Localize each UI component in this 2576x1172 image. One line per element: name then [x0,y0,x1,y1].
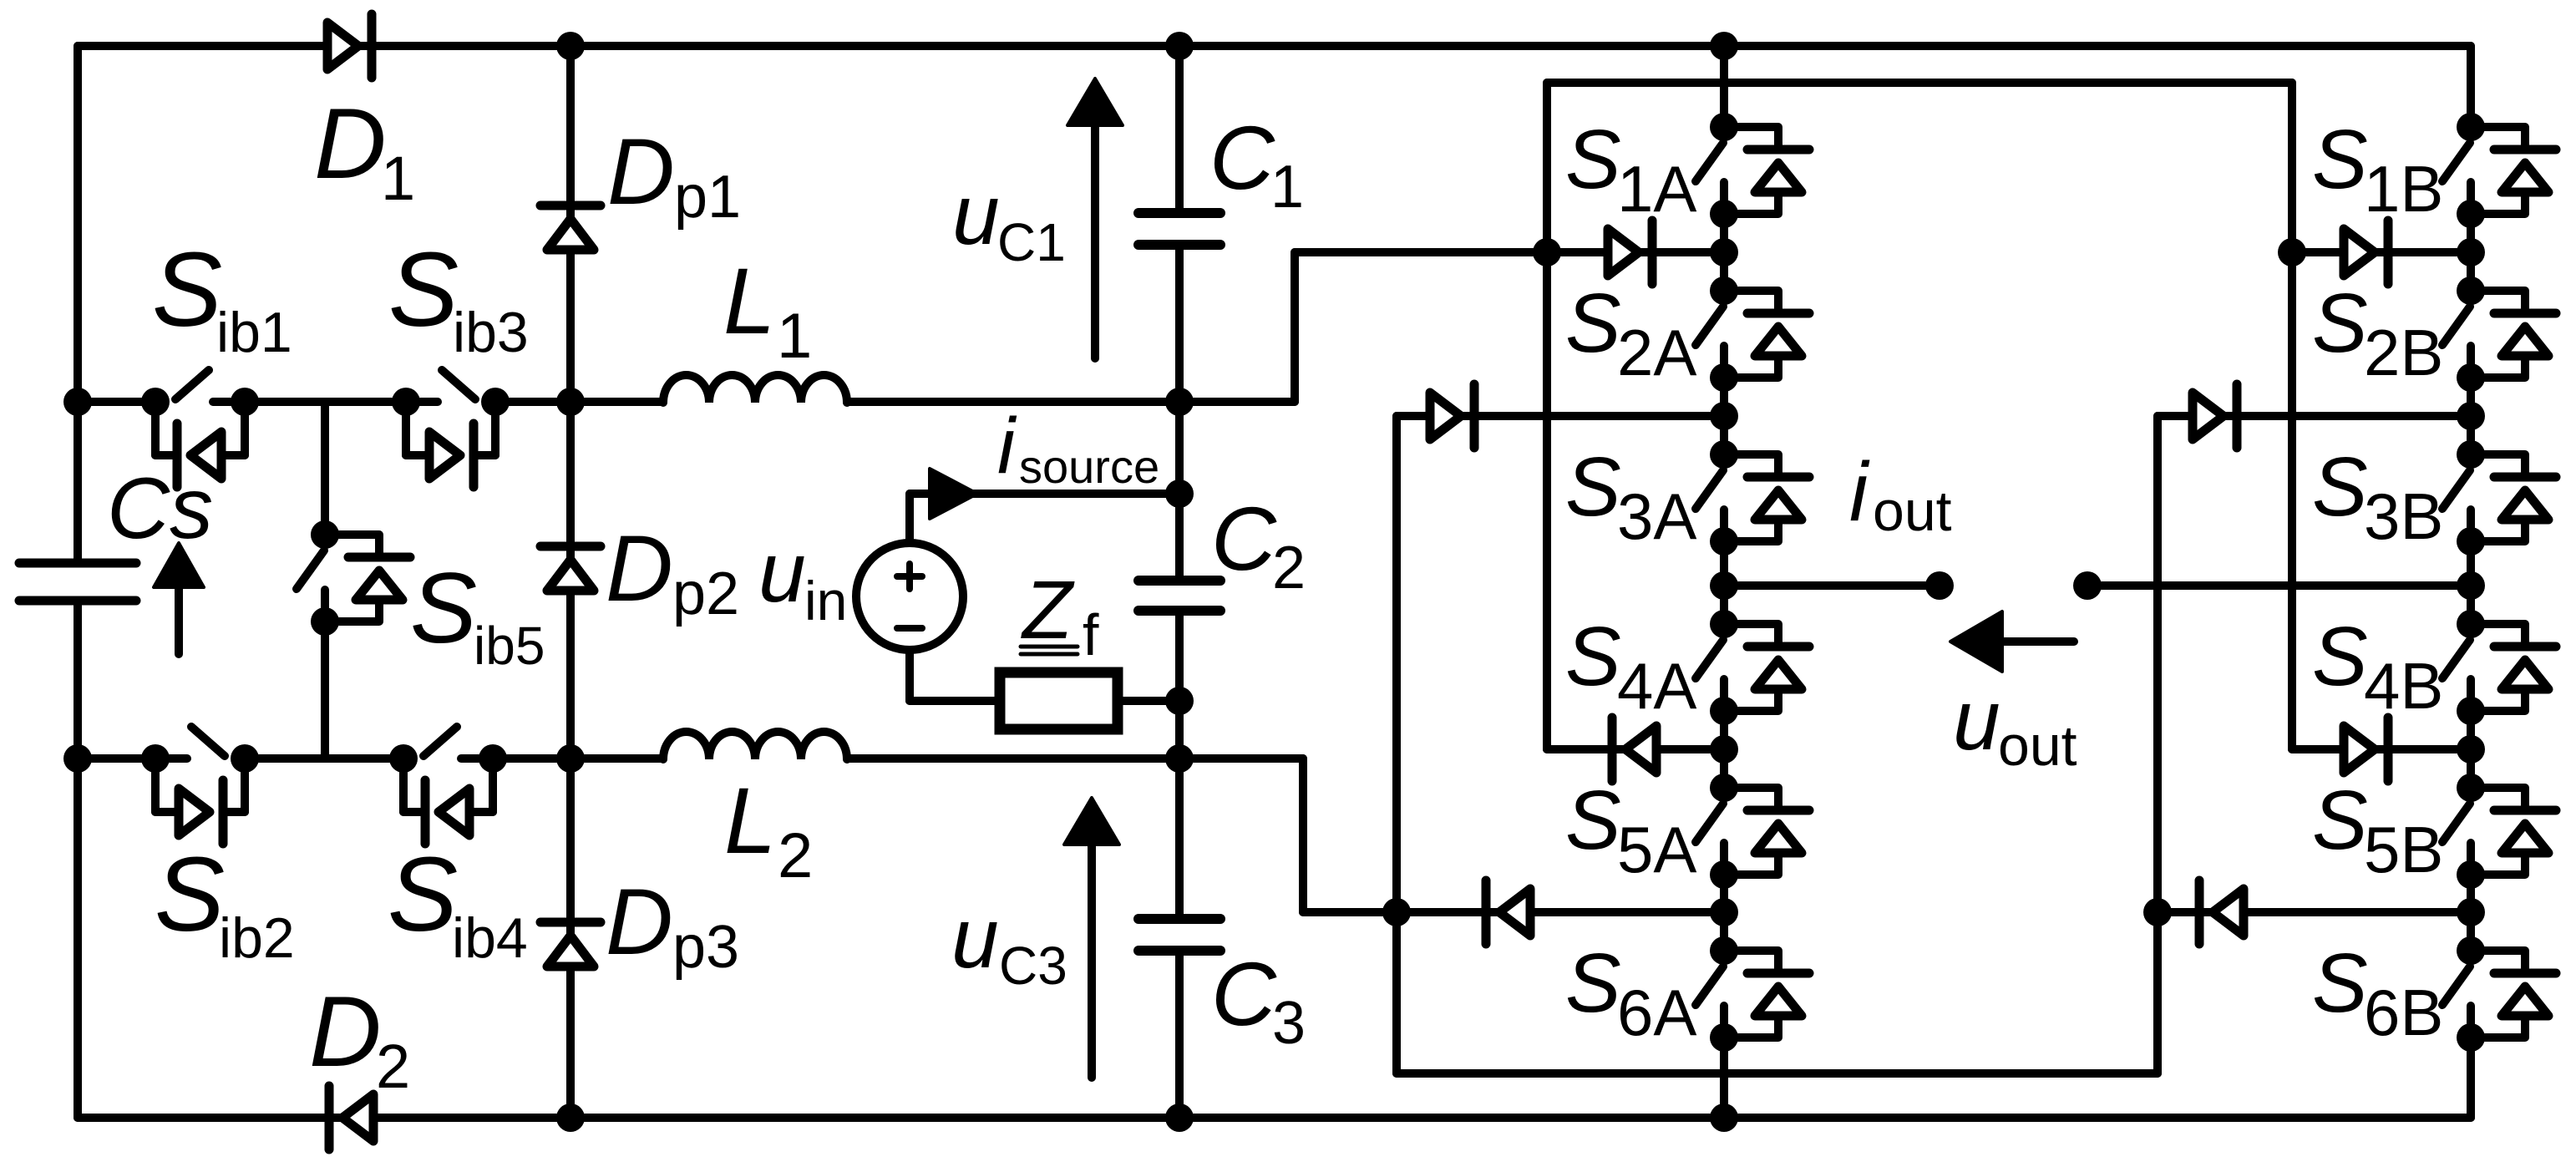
diode Dp2 [540,542,601,551]
svg-text:D: D [309,976,382,1088]
svg-text:C: C [1211,488,1277,589]
capacitor C1 [1138,208,1220,218]
wire C column seg1 [1175,46,1184,213]
diode row4A [1608,718,1617,781]
svg-text:S: S [1565,440,1621,534]
diode row1A [1648,221,1657,284]
diode D1 [368,14,377,78]
capacitor Cs [19,559,136,568]
wire row1 left [78,398,155,406]
inductor L2 [663,732,847,759]
svg-text:ib1: ib1 [216,301,292,364]
junction dot 19 [2073,571,2102,600]
switch S6A [1710,936,1738,965]
wire B-chain seg5 [2467,875,2475,951]
junction dot 17 [1710,1104,1738,1132]
wire Sib5 lower [321,622,329,759]
wire Zf right lead [1118,697,1179,705]
wire rail2 [1547,79,2292,87]
wire B-chain seg3 [2467,541,2475,624]
wire row4 A [1547,745,1724,753]
node B y701 [2457,571,2485,600]
arrow Cs [175,582,183,654]
svg-text:out: out [1873,479,1952,543]
junction dot 18 [1925,571,1954,600]
source uin [856,543,963,650]
svg-text:1: 1 [381,144,415,213]
diode row4B [2384,718,2393,781]
switch S6B [2457,936,2485,965]
junction dot 0 [556,32,585,60]
svg-text:p2: p2 [672,561,739,627]
svg-text:2: 2 [376,1032,410,1101]
svg-text:in: in [804,570,847,632]
node A y1092 [1710,898,1738,926]
svg-text:2A: 2A [1617,316,1696,389]
svg-text:3: 3 [1272,990,1306,1057]
svg-text:S: S [1565,277,1621,370]
svg-text:1A: 1A [1617,152,1696,226]
svg-text:D: D [607,119,675,224]
switch Sib1 [141,388,170,416]
wire row2 A [1397,412,1724,420]
svg-text:i: i [1849,445,1870,539]
wire row2 mid [245,754,403,763]
svg-text:S: S [388,835,458,953]
svg-text:S: S [2312,610,2368,703]
diode row1B [2384,221,2393,284]
capacitor C3 [1138,914,1220,924]
wire A-chain seg0 [1720,46,1728,127]
node B y897 [2457,735,2485,764]
svg-text:4B: 4B [2364,649,2443,723]
svg-text:f: f [1083,602,1099,667]
svg-text:S: S [155,835,225,953]
svg-text:out: out [1998,714,2077,778]
wire A-chain seg6 [1720,1038,1728,1118]
wire iout [1724,581,1940,590]
wire uin top lead [905,494,914,543]
svg-text:6A: 6A [1617,976,1696,1049]
svg-text:1: 1 [1270,154,1304,221]
wire bottom rail [78,1114,2471,1122]
svg-text:1B: 1B [2364,152,2443,226]
svg-text:S: S [152,231,222,348]
svg-text:S: S [1565,610,1621,703]
wire A-chain seg2 [1720,378,1728,454]
wire Sib5 upper [321,402,329,535]
switch S2A [1710,277,1738,305]
svg-text:S: S [1565,774,1621,867]
wire B-chain seg4 [2467,711,2475,788]
svg-text:L: L [724,769,776,873]
node A y897 [1710,735,1738,764]
switch S5B [2457,774,2485,802]
wire A-chain seg1 [1720,214,1728,291]
wire isource [910,490,1179,498]
inductor L1 [663,375,847,403]
svg-text:u: u [1953,672,2000,768]
junction dot 9 [556,744,585,773]
svg-text:p1: p1 [674,164,741,231]
svg-text:L: L [723,249,775,353]
junction dot 5 [1165,388,1194,416]
wire B-chain seg2 [2467,378,2475,454]
svg-text:ib4: ib4 [452,906,528,970]
svg-text:C3: C3 [999,936,1067,996]
svg-text:6B: 6B [2364,976,2443,1049]
capacitor C2 [1138,576,1220,586]
svg-text:ib3: ib3 [453,301,529,364]
node B y498 [2457,402,2485,430]
svg-text:ib5: ib5 [474,616,545,676]
wire C column seg3 [1175,611,1184,919]
svg-text:ib2: ib2 [219,906,295,970]
svg-text:u: u [758,525,806,620]
wire B-chain seg0 [2467,46,2475,127]
wire B-chain seg6 [2467,1038,2475,1118]
label Zf underline [1021,645,1078,649]
svg-text:S: S [388,231,459,348]
switch Sib5 [311,520,339,549]
diode row5A [1482,880,1491,944]
junction dot 15 [556,1104,585,1132]
wire A-rail [1543,83,1551,749]
wire A-chain seg4 [1720,711,1728,788]
junction dot 2 [1710,32,1738,60]
impedance Zf box [1000,672,1118,729]
svg-text:S: S [2312,936,2368,1030]
svg-text:5A: 5A [1617,813,1696,886]
wire Dp column [566,46,575,1118]
node A y302 [1710,238,1738,266]
svg-text:D: D [606,516,673,621]
arrow uC3 [1088,840,1096,1078]
switch Sib4 [389,744,418,773]
diode D2 [325,1086,334,1149]
wire row4 B [2292,745,2471,753]
diode Dp1 [540,201,601,211]
junction dot 1 [1165,32,1194,60]
wire uin bottom lead [905,650,914,701]
wire loopB vertical [2153,416,2162,1073]
svg-text:i: i [997,402,1017,490]
junction dot 16 [1165,1104,1194,1132]
wire Zf left lead [910,697,1000,705]
wire A-chain seg3 [1720,541,1728,624]
wire row5 feed A [1303,908,1724,916]
diode row2B [2233,384,2242,448]
svg-text:u: u [952,167,1000,262]
wire C column seg2 [1175,245,1184,581]
svg-text:2B: 2B [2364,316,2443,389]
arrow uout [1997,637,2074,646]
switch S3B [2457,440,2485,469]
svg-text:source: source [1019,440,1159,493]
wire L2 lead left [570,754,663,763]
svg-text:Cs: Cs [107,460,213,557]
wire L1 lead right [847,398,1295,406]
arrow uC1 [1091,120,1099,358]
svg-text:D: D [314,88,387,200]
switch S3A [1710,440,1738,469]
wire row1 mid [245,398,406,406]
wire row5 B [2158,908,2471,916]
junction dot 10 [1165,744,1194,773]
svg-text:D: D [606,870,673,974]
wire L1 lead left [570,398,663,406]
junction dot 11 [1533,238,1561,266]
junction dot 13 [1382,898,1411,926]
wire row2 B [2158,412,2471,420]
svg-text:S: S [2312,774,2368,867]
wire B-rail [2288,83,2296,749]
arrow isource [930,469,977,519]
wire left rail upper [74,46,82,559]
svg-text:2: 2 [778,820,813,891]
svg-text:S: S [2312,277,2368,370]
wire top rail [78,42,2471,50]
svg-text:S: S [2312,440,2368,534]
junction dot 7 [1165,687,1194,715]
svg-text:5B: 5B [2364,813,2443,886]
svg-text:S: S [410,552,477,664]
switch Sib2 [141,744,170,773]
wire L2 lead right [847,754,1303,763]
switch S5A [1710,774,1738,802]
svg-text:4A: 4A [1617,649,1696,723]
wire row1 feeder up [1291,252,1299,402]
svg-text:C: C [1209,107,1275,208]
node A y701 [1710,571,1738,600]
wire row2 right [493,754,570,763]
switch Sib3 [392,388,420,416]
junction dot 12 [2278,238,2306,266]
wire loopA vertical [1392,416,1401,1073]
svg-text:u: u [951,890,999,986]
svg-text:2: 2 [1272,535,1306,601]
switch S4A [1710,610,1738,638]
svg-text:3A: 3A [1617,479,1696,553]
wire row5 feeder down [1299,759,1307,912]
svg-text:Z: Z [1021,564,1075,656]
wire uout [2087,581,2471,590]
svg-text:S: S [1565,113,1621,206]
node B y302 [2457,238,2485,266]
node B y1092 [2457,898,2485,926]
switch S4B [2457,610,2485,638]
wire B-chain seg1 [2467,214,2475,291]
diode row2A [1470,384,1479,448]
wire row1 right [495,398,570,406]
wire node1 feed [1295,248,1724,256]
junction dot 6 [1165,479,1194,508]
switch S2B [2457,277,2485,305]
wire bottom loop [1397,1069,2158,1078]
svg-text:C: C [1211,943,1277,1044]
svg-text:C1: C1 [997,212,1066,272]
wire row2 left [78,754,155,763]
diode Dp3 [540,918,601,927]
wire C column seg4 [1175,951,1184,1118]
wire A-chain seg5 [1720,875,1728,951]
junction dot 14 [2143,898,2172,926]
svg-text:1: 1 [777,301,812,372]
wire row1 B [2292,248,2471,256]
svg-text:S: S [1565,936,1621,1030]
switch S1B [2457,113,2485,141]
junction dot 4 [556,388,585,416]
svg-text:3B: 3B [2364,479,2443,553]
node A y498 [1710,402,1738,430]
diode row5B [2195,880,2204,944]
switch S1A [1710,113,1738,141]
junction dot 3 [63,388,92,416]
junction dot 8 [63,744,92,773]
wire left rail lower [74,605,82,1118]
svg-text:S: S [2312,113,2368,206]
svg-text:p3: p3 [672,914,739,981]
